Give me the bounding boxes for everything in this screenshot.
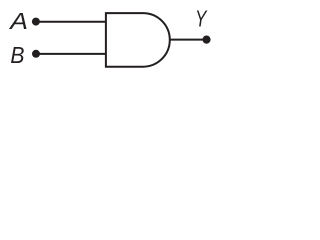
AND gate U1 bbox=[106, 13, 170, 67]
node A terminal dot bbox=[32, 18, 40, 26]
node Y terminal dot bbox=[202, 36, 210, 44]
svg-text:B: B bbox=[10, 42, 24, 68]
wire A input bbox=[36, 21, 106, 23]
wire B input bbox=[36, 53, 106, 55]
svg-text:Y: Y bbox=[195, 6, 207, 32]
svg-text:A: A bbox=[8, 8, 28, 34]
wire output bbox=[170, 39, 207, 41]
node B terminal dot bbox=[32, 50, 40, 58]
